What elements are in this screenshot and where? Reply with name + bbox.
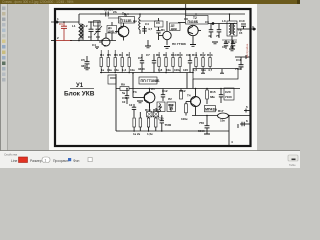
svg-text:Тр: Тр: [122, 12, 126, 16]
svg-text:Д9В: Д9В: [108, 30, 115, 34]
svg-text:L3: L3: [222, 19, 226, 23]
svg-text:68к: 68к: [210, 95, 215, 99]
svg-text:L2: L2: [84, 24, 88, 28]
svg-text:4,7: 4,7: [169, 107, 174, 111]
svg-text:Table: Table: [289, 163, 296, 167]
svg-text:R6: R6: [114, 53, 118, 57]
svg-text:R13: R13: [207, 53, 213, 57]
svg-text:Д9В: Д9В: [171, 27, 178, 31]
svg-text:R13: R13: [145, 108, 151, 112]
svg-text:33к: 33к: [114, 68, 119, 72]
svg-text:1,5к: 1,5к: [147, 132, 153, 136]
svg-text:С12: С12: [162, 89, 168, 93]
svg-text:R1: R1: [161, 28, 165, 32]
svg-text:Свойства: Свойства: [4, 153, 18, 157]
svg-text:Схема - фото 300 х 2.jpg 1200х: Схема - фото 300 х 2.jpg 1200х800 - 1/24…: [2, 0, 74, 4]
svg-text:1: 1: [45, 159, 47, 163]
svg-text:С8: С8: [184, 17, 188, 21]
svg-text:R9: R9: [121, 83, 125, 87]
svg-text:Фон: Фон: [73, 159, 79, 163]
svg-text:Т: Т: [104, 44, 106, 48]
svg-text:Л1: Л1: [151, 87, 155, 91]
svg-text:П416Б: П416Б: [188, 20, 199, 24]
svg-text:100к: 100к: [181, 117, 188, 121]
svg-text:4,7: 4,7: [208, 68, 213, 72]
svg-text:3300: 3300: [138, 67, 145, 71]
svg-text:ГТ313Б: ГТ313Б: [120, 19, 133, 23]
svg-text:С1: С1: [59, 22, 63, 26]
svg-text:1,2: 1,2: [122, 68, 127, 72]
svg-text:1к: 1к: [101, 68, 105, 72]
svg-text:1к 390: 1к 390: [104, 8, 113, 12]
svg-text:R7: R7: [126, 53, 130, 57]
svg-text:10к: 10к: [201, 68, 206, 72]
svg-text:R12: R12: [180, 89, 186, 93]
svg-text:R9: R9: [163, 53, 167, 57]
svg-text:R8: R8: [156, 53, 160, 57]
svg-text:Тр: Тр: [238, 28, 242, 32]
svg-text:10к: 10к: [130, 68, 135, 72]
svg-text:С7: С7: [146, 53, 150, 57]
svg-text:R10: R10: [177, 53, 183, 57]
svg-text:Т3: Т3: [133, 90, 137, 94]
svg-text:ПП ГТ308Б: ПП ГТ308Б: [141, 79, 160, 83]
svg-text:С4: С4: [145, 22, 149, 26]
svg-text:6,8: 6,8: [158, 68, 163, 72]
svg-text:120: 120: [183, 68, 188, 72]
svg-text:10к: 10к: [166, 68, 171, 72]
svg-text:Блок УКВ: Блок УКВ: [64, 91, 95, 98]
svg-text:R5: R5: [107, 53, 111, 57]
svg-text:10к: 10к: [107, 68, 112, 72]
svg-text:7100: 7100: [225, 95, 232, 99]
svg-text:С7: С7: [138, 56, 142, 60]
svg-text:10: 10: [222, 45, 226, 49]
svg-text:С2: С2: [88, 35, 92, 39]
svg-text:Прозрачн.: Прозрачн.: [53, 159, 69, 163]
svg-text:1,5: 1,5: [193, 68, 198, 72]
svg-text:С16: С16: [236, 58, 242, 62]
svg-text:Т4: Т4: [187, 94, 191, 98]
svg-text:настройка: настройка: [245, 43, 249, 58]
svg-text:С6: С6: [156, 21, 160, 25]
svg-text:100к: 100к: [174, 68, 181, 72]
svg-text:7500: 7500: [235, 67, 242, 71]
svg-text:R4: R4: [100, 53, 104, 57]
svg-text:10: 10: [122, 100, 126, 104]
svg-text:R3: R3: [119, 53, 123, 57]
svg-text:4,7: 4,7: [148, 27, 153, 31]
svg-text:МП41Б: МП41Б: [205, 107, 217, 111]
svg-text:С5: С5: [81, 58, 85, 62]
svg-text:75: 75: [216, 34, 220, 38]
svg-text:Размер: Размер: [30, 159, 42, 163]
svg-text:Л2: Л2: [168, 97, 172, 101]
svg-text:С4: С4: [92, 43, 96, 47]
svg-text:12: 12: [129, 103, 133, 107]
svg-text:R10: R10: [171, 53, 177, 57]
svg-text:ПС ГТ308: ПС ГТ308: [172, 42, 186, 46]
svg-text:R17: R17: [218, 109, 224, 113]
svg-text:R11: R11: [192, 53, 198, 57]
svg-text:47: 47: [208, 34, 212, 38]
svg-text:С15: С15: [158, 117, 164, 121]
svg-text:750: 750: [199, 121, 204, 125]
svg-text:5к: 5к: [122, 91, 126, 95]
svg-text:L1: L1: [72, 24, 76, 28]
svg-text:С20: С20: [225, 90, 231, 94]
svg-text:С3: С3: [96, 35, 100, 39]
svg-text:15к: 15к: [220, 119, 225, 123]
svg-text:1к 2к: 1к 2к: [133, 132, 141, 136]
svg-text:7500: 7500: [165, 123, 172, 127]
svg-text:С9: С9: [186, 53, 190, 57]
svg-text:R15: R15: [210, 90, 216, 94]
svg-text:15: 15: [230, 45, 234, 49]
svg-text:С13: С13: [224, 40, 230, 44]
svg-text:330: 330: [81, 64, 86, 68]
svg-text:С14: С14: [231, 40, 237, 44]
svg-text:R12: R12: [200, 53, 206, 57]
svg-text:С9: С9: [205, 20, 209, 24]
svg-text:5500: 5500: [198, 129, 205, 133]
svg-text:С10: С10: [239, 19, 245, 23]
svg-text:L4: L4: [159, 105, 163, 109]
svg-text:Line: Line: [11, 159, 18, 163]
svg-text:Др: Др: [133, 19, 137, 23]
